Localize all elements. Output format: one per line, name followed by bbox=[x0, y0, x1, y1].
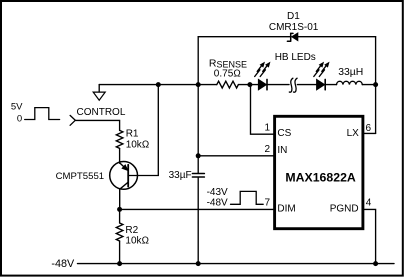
LED 1 bbox=[250, 63, 289, 90]
node junction R2 to -48V rail bbox=[117, 261, 122, 266]
wire cap top lead bbox=[197, 85, 199, 173]
wire CS pin 1 bbox=[251, 85, 275, 135]
svg-text:HB LEDs: HB LEDs bbox=[275, 52, 316, 63]
node junction IN tap bbox=[196, 153, 201, 158]
svg-text:CMPT5551: CMPT5551 bbox=[56, 171, 105, 182]
svg-text:7: 7 bbox=[264, 197, 270, 208]
wire LX pin 6 bbox=[363, 123, 376, 134]
break symbol (series LEDs omitted) bbox=[289, 78, 297, 92]
resistor RSENSE 0.75ohm bbox=[209, 57, 250, 88]
svg-text:33µF: 33µF bbox=[169, 170, 192, 181]
wire right rail (top wire to LX) bbox=[375, 37, 377, 134]
node junction inductor/right-rail bbox=[373, 82, 378, 87]
svg-text:CMR1S-01: CMR1S-01 bbox=[269, 22, 319, 33]
svg-text:CS: CS bbox=[277, 128, 291, 139]
svg-text:6: 6 bbox=[366, 123, 372, 134]
svg-text:10kΩ: 10kΩ bbox=[126, 139, 150, 150]
svg-text:IN: IN bbox=[277, 145, 287, 156]
waveform 5V/0 control input bbox=[11, 101, 60, 124]
capacitor C1 33uF bbox=[169, 170, 205, 181]
wire ground rail to RSENSE bbox=[99, 84, 217, 86]
svg-text:2: 2 bbox=[264, 144, 270, 155]
wire DIM pin 7 bbox=[120, 197, 275, 209]
svg-text:PGND: PGND bbox=[330, 204, 359, 215]
node junction 4-way at cap/top-wire tap bbox=[196, 82, 201, 87]
resistor R2 10k bbox=[116, 209, 149, 263]
wire PGND pin 4 bbox=[363, 197, 376, 263]
wire top right of diode bbox=[298, 36, 376, 38]
svg-text:-43V: -43V bbox=[207, 187, 228, 198]
node junction PGND to -48V rail bbox=[373, 261, 378, 266]
node junction CS tap bbox=[247, 82, 252, 87]
svg-text:-48V: -48V bbox=[207, 197, 228, 208]
wire cap bottom lead to -48V rail bbox=[197, 178, 199, 264]
waveform DIM input -43V/-48V bbox=[207, 187, 264, 208]
resistor R1 10k bbox=[116, 129, 149, 164]
inductor L1 33uH bbox=[337, 67, 376, 85]
svg-text:CONTROL: CONTROL bbox=[77, 107, 126, 118]
LED 2 bbox=[297, 63, 336, 90]
IC U1 MAX16822A bbox=[275, 116, 363, 228]
wire IN pin 2 bbox=[198, 144, 274, 156]
node junction cap to -48V rail bbox=[196, 261, 201, 266]
svg-text:1: 1 bbox=[264, 122, 270, 133]
wire top loop (to diode D1 and right rail) bbox=[198, 37, 291, 85]
svg-text:33µH: 33µH bbox=[338, 67, 363, 78]
svg-text:LX: LX bbox=[347, 128, 360, 139]
svg-text:DIM: DIM bbox=[277, 203, 295, 214]
svg-text:0.75Ω: 0.75Ω bbox=[214, 69, 241, 80]
transistor Q1 CMPT5551 bbox=[56, 162, 138, 210]
diode D1 CMR1S-01 (Schottky) bbox=[269, 11, 319, 41]
node CONTROL input chevron bbox=[70, 115, 75, 125]
svg-text:5V: 5V bbox=[11, 101, 23, 112]
svg-text:D1: D1 bbox=[287, 11, 300, 22]
svg-text:-48V: -48V bbox=[51, 258, 75, 270]
node junction collector/DIM/R2 bbox=[117, 207, 122, 212]
wire CONTROL to R1 bbox=[75, 120, 119, 130]
svg-text:R2: R2 bbox=[125, 225, 138, 236]
svg-text:MAX16822A: MAX16822A bbox=[285, 170, 356, 184]
svg-text:4: 4 bbox=[366, 197, 372, 208]
wire -48V bottom rail bbox=[78, 263, 395, 265]
wire transistor base to ground rail bbox=[129, 85, 158, 176]
node junction base-wire tap bbox=[156, 82, 161, 87]
svg-text:R1: R1 bbox=[126, 129, 139, 140]
svg-text:0: 0 bbox=[17, 114, 22, 125]
ground bbox=[93, 85, 105, 101]
svg-text:10kΩ: 10kΩ bbox=[125, 236, 149, 247]
